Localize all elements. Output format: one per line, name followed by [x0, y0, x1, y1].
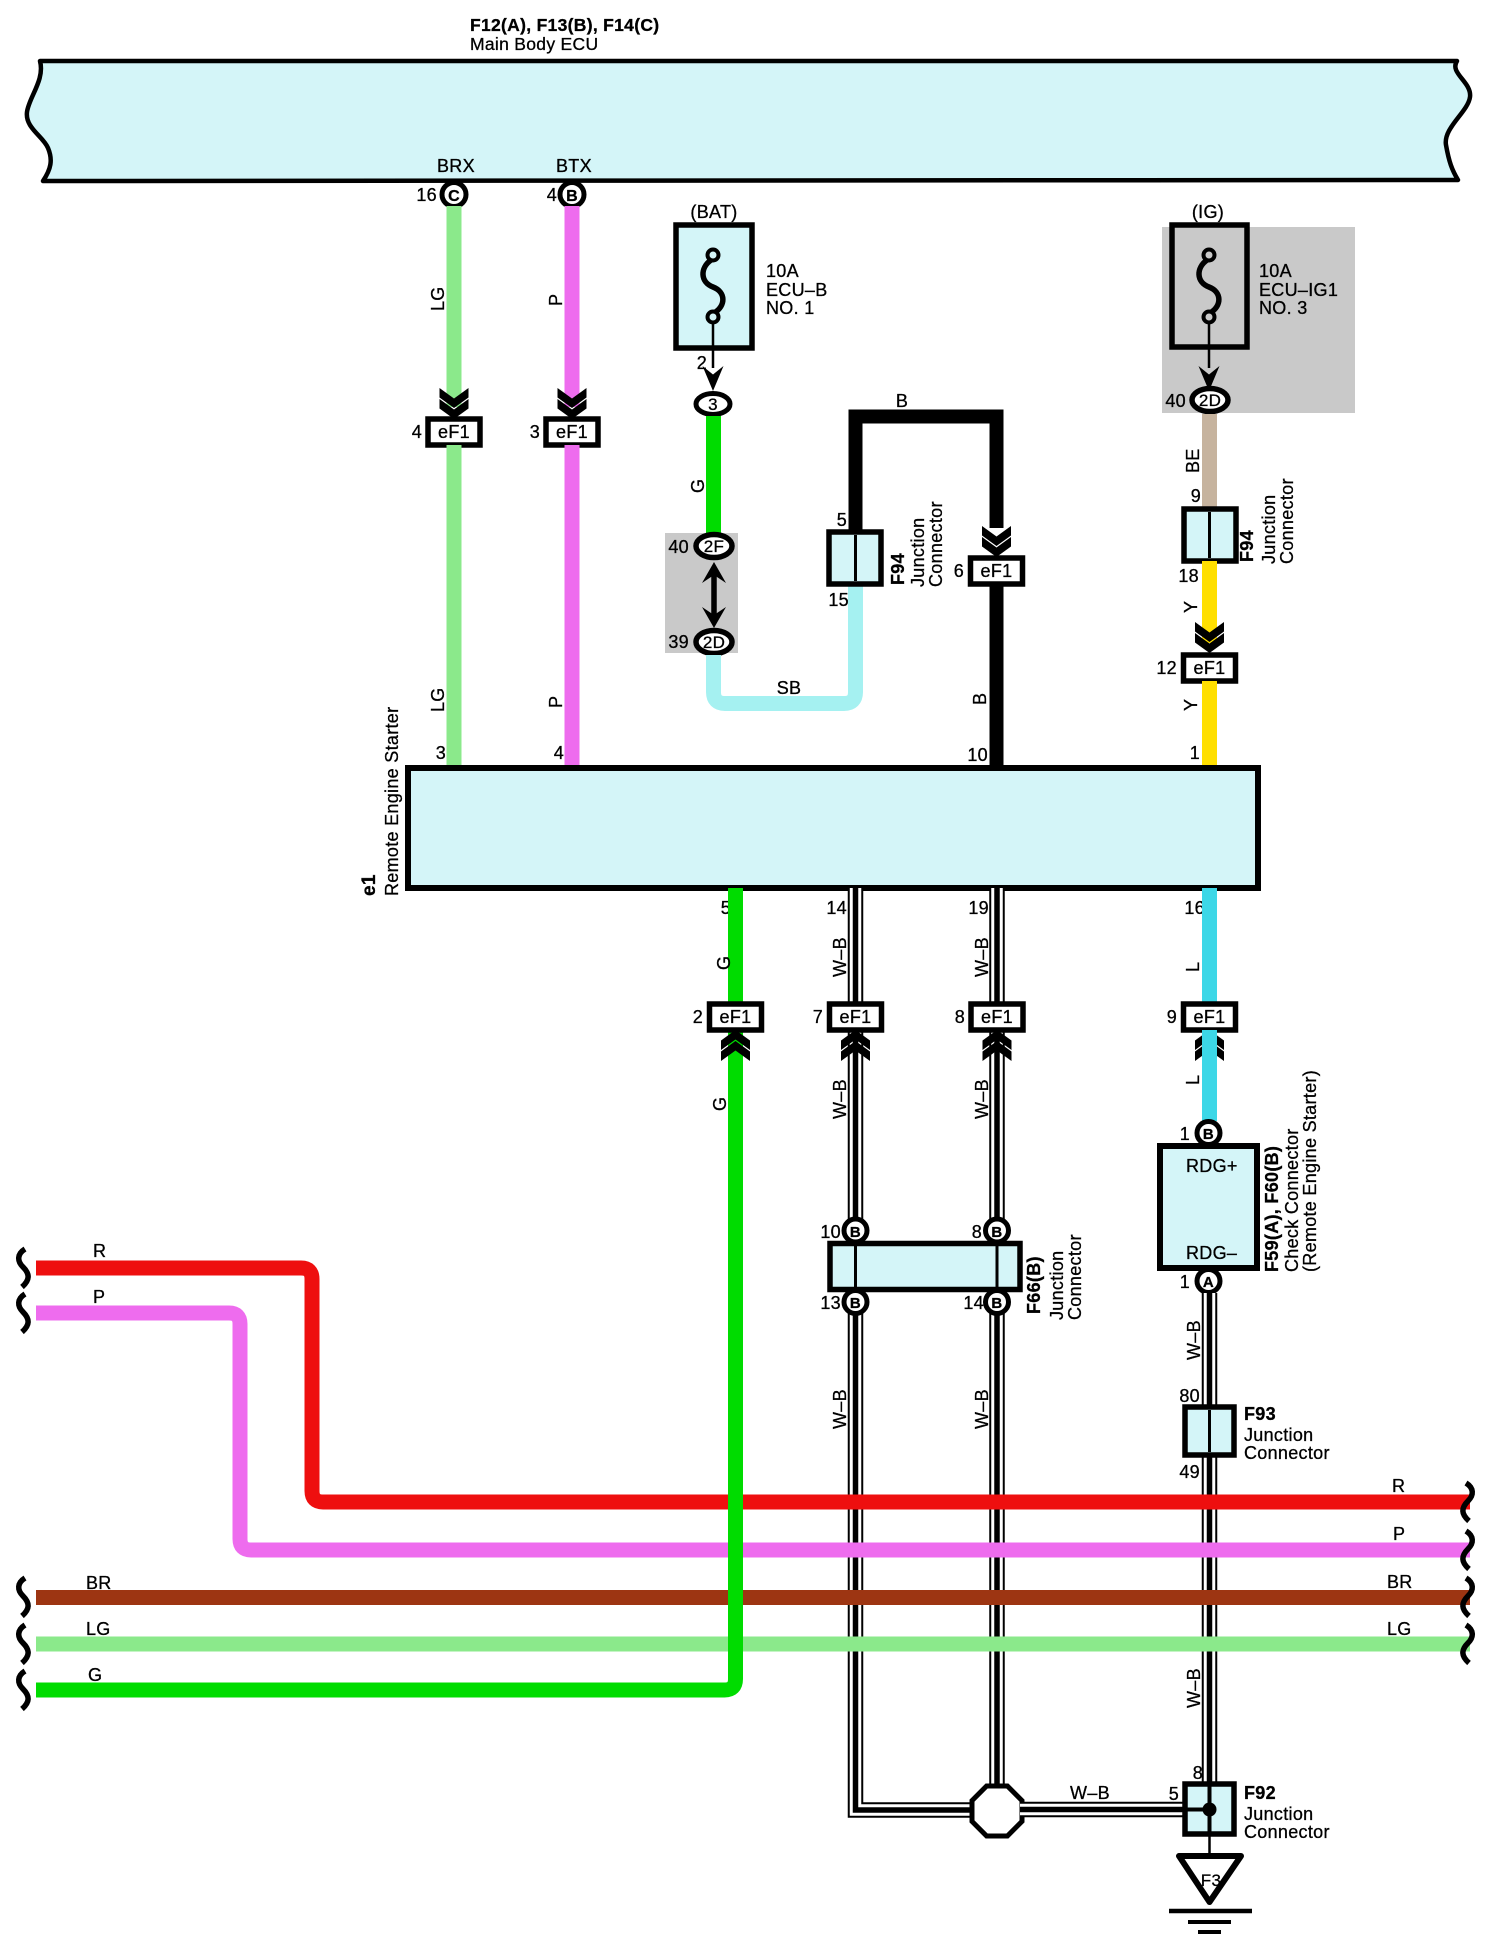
- node 2F pin 40: [668, 535, 732, 558]
- svg-text:L: L: [1183, 962, 1203, 972]
- wire BR: [19, 1572, 1473, 1616]
- svg-text:B: B: [991, 1224, 1002, 1241]
- connector eF1 pin 2: [693, 1004, 762, 1061]
- svg-text:R: R: [93, 1241, 106, 1261]
- check connector node B pin 1: [1180, 1122, 1220, 1145]
- svg-text:ECU–IG1: ECU–IG1: [1259, 280, 1338, 300]
- svg-text:F59(A), F60(B): F59(A), F60(B): [1262, 1146, 1282, 1272]
- svg-text:2: 2: [693, 1007, 703, 1027]
- svg-text:12: 12: [1156, 658, 1177, 678]
- wire P: [19, 1287, 1473, 1569]
- svg-text:BRX: BRX: [437, 156, 475, 176]
- svg-text:14: 14: [826, 898, 847, 918]
- svg-text:P: P: [93, 1287, 105, 1307]
- junction connector F92 pins 8/5: [1185, 1783, 1330, 1842]
- wire B lower to pin 10: [967, 584, 1003, 768]
- svg-text:G: G: [710, 1097, 730, 1111]
- svg-text:Junction: Junction: [1047, 1251, 1067, 1320]
- gray box IG: [1162, 227, 1355, 413]
- svg-text:15: 15: [828, 590, 849, 610]
- fuse 10A ECU-B NO.1 (BAT): [676, 202, 828, 368]
- svg-text:F12(A), F13(B), F14(C): F12(A), F13(B), F14(C): [470, 15, 659, 35]
- junction connector F66(B): [820, 1219, 1085, 1320]
- svg-text:L: L: [1183, 1075, 1203, 1085]
- connector eF1 pin 9: [1167, 1004, 1236, 1061]
- svg-text:LG: LG: [86, 1619, 111, 1639]
- svg-text:8: 8: [1193, 1763, 1203, 1783]
- connector eF1 pin 4: [412, 419, 480, 445]
- svg-text:F3: F3: [1201, 1871, 1221, 1890]
- svg-text:eF1: eF1: [720, 1007, 752, 1027]
- svg-text:W–B: W–B: [1184, 1320, 1204, 1360]
- svg-text:P: P: [546, 294, 566, 306]
- fuse 10A ECU-IG1 NO.3 (IG): [1172, 202, 1338, 368]
- wire W-B from node A to F93: [1179, 1293, 1209, 1790]
- svg-text:13: 13: [820, 1293, 841, 1313]
- svg-text:G: G: [688, 479, 708, 493]
- svg-text:R: R: [1392, 1476, 1405, 1496]
- svg-text:39: 39: [668, 632, 689, 652]
- svg-text:W–B: W–B: [830, 1389, 850, 1429]
- svg-text:40: 40: [1165, 391, 1186, 411]
- wire W-B left (pin 14 chain): [830, 888, 974, 1810]
- svg-text:Junction: Junction: [1244, 1804, 1313, 1824]
- connector eF1 pin 12: [1156, 655, 1235, 681]
- svg-text:2F: 2F: [704, 537, 724, 556]
- Main Body ECU band F12(A) F13(B) F14(C): [27, 15, 1470, 181]
- svg-text:B: B: [991, 1295, 1002, 1312]
- wire BAT fuse to node 3 with arrow, pin 2: [697, 353, 724, 391]
- svg-text:Connector: Connector: [1244, 1443, 1330, 1463]
- wire G bottom from pin 5: [19, 888, 736, 1709]
- svg-text:Check Connector: Check Connector: [1282, 1128, 1302, 1272]
- node 2D pin 40 (IG): [1165, 389, 1228, 412]
- svg-text:Junction: Junction: [908, 518, 928, 587]
- gray box 2F-2D: [665, 533, 738, 653]
- junction connector F93 pins 80/49: [1179, 1404, 1329, 1482]
- svg-text:2D: 2D: [1199, 391, 1221, 410]
- wire LG upper: [428, 206, 462, 407]
- svg-text:1: 1: [1190, 743, 1200, 763]
- wire B hook from F94 over to eF1 6: [856, 391, 997, 532]
- wire W-B middle (pin 19 chain): [972, 888, 997, 1790]
- link arrow 2F to 2D: [702, 562, 726, 628]
- svg-text:6: 6: [954, 561, 964, 581]
- svg-text:P: P: [546, 696, 566, 708]
- wire G from node 3 to 2F: [688, 416, 721, 533]
- svg-text:16: 16: [416, 185, 437, 205]
- node 3 oval: [696, 394, 730, 415]
- svg-text:1: 1: [1180, 1124, 1190, 1144]
- svg-text:14: 14: [963, 1293, 984, 1313]
- arrow IG fuse to 2D: [1199, 366, 1220, 391]
- svg-text:Connector: Connector: [1277, 478, 1297, 564]
- svg-text:(BAT): (BAT): [690, 202, 737, 222]
- svg-text:RDG+: RDG+: [1186, 1156, 1238, 1176]
- check connector node A pin 1: [1180, 1270, 1220, 1293]
- svg-text:4: 4: [547, 185, 557, 205]
- connector B pin 4: [547, 183, 584, 207]
- svg-text:W–B: W–B: [972, 937, 992, 977]
- connector eF1 pin 8: [955, 1004, 1023, 1061]
- svg-text:Main Body ECU: Main Body ECU: [470, 34, 598, 54]
- shield chevrons P: [558, 388, 587, 419]
- svg-text:BTX: BTX: [556, 156, 592, 176]
- svg-text:4: 4: [412, 422, 422, 442]
- svg-text:40: 40: [668, 537, 689, 557]
- svg-text:9: 9: [1191, 486, 1201, 506]
- svg-text:BE: BE: [1183, 448, 1203, 473]
- shield chevrons B: [982, 526, 1011, 557]
- svg-text:G: G: [88, 1665, 102, 1685]
- svg-text:10: 10: [820, 1222, 841, 1242]
- svg-text:Junction: Junction: [1259, 495, 1279, 564]
- wire BE: [1183, 414, 1217, 509]
- svg-text:P: P: [1393, 1524, 1405, 1544]
- octagon junction: [972, 1786, 1022, 1836]
- svg-text:F93: F93: [1244, 1404, 1276, 1424]
- wire L from pin 16: [1183, 888, 1217, 1004]
- svg-text:BR: BR: [1387, 1572, 1413, 1592]
- junction connector F94 (right) pins 9/18: [1178, 478, 1297, 586]
- node 2D pin 39: [668, 631, 732, 654]
- connector eF1 pin 3: [530, 419, 598, 445]
- svg-text:ECU–B: ECU–B: [766, 280, 828, 300]
- svg-text:F94: F94: [888, 553, 908, 585]
- svg-text:e1: e1: [359, 874, 380, 896]
- svg-text:7: 7: [813, 1007, 823, 1027]
- svg-text:eF1: eF1: [1194, 658, 1226, 678]
- svg-text:1: 1: [1180, 1272, 1190, 1292]
- svg-text:B: B: [1203, 1126, 1214, 1143]
- check connector F59(A) F60(B) box: [1160, 1070, 1320, 1272]
- svg-text:8: 8: [955, 1007, 965, 1027]
- svg-text:NO. 1: NO. 1: [766, 298, 815, 318]
- svg-text:49: 49: [1179, 1462, 1200, 1482]
- ground F3: [1169, 1834, 1252, 1932]
- svg-text:RDG–: RDG–: [1186, 1243, 1237, 1263]
- svg-text:2D: 2D: [703, 633, 725, 652]
- Remote Engine Starter e1 box: [359, 707, 1258, 918]
- wire LG lower: [428, 445, 462, 768]
- svg-text:W–B: W–B: [972, 1079, 992, 1119]
- svg-text:10: 10: [967, 745, 988, 765]
- connector eF1 pin 6: [954, 558, 1023, 584]
- svg-text:3: 3: [530, 422, 540, 442]
- svg-text:18: 18: [1178, 566, 1199, 586]
- svg-text:F66(B): F66(B): [1024, 1256, 1044, 1314]
- svg-text:LG: LG: [1387, 1619, 1412, 1639]
- wire SB from 2D to F94: [714, 584, 856, 704]
- svg-text:3: 3: [436, 743, 446, 763]
- svg-text:9: 9: [1167, 1007, 1177, 1027]
- svg-text:19: 19: [968, 898, 989, 918]
- svg-text:LG: LG: [428, 687, 448, 712]
- svg-text:Junction: Junction: [1244, 1425, 1313, 1445]
- junction connector F94 (left) pins 5/15: [828, 501, 946, 610]
- svg-text:B: B: [970, 693, 990, 705]
- svg-text:Connector: Connector: [1244, 1822, 1330, 1842]
- wire L lower: [1183, 1030, 1217, 1121]
- svg-text:SB: SB: [777, 678, 802, 698]
- svg-text:LG: LG: [428, 286, 448, 311]
- svg-text:W–B: W–B: [830, 937, 850, 977]
- svg-text:eF1: eF1: [981, 561, 1013, 581]
- svg-text:F94: F94: [1237, 530, 1257, 562]
- svg-text:B: B: [850, 1224, 861, 1241]
- svg-text:C: C: [448, 188, 460, 205]
- svg-text:10A: 10A: [766, 261, 799, 281]
- svg-text:B: B: [850, 1295, 861, 1312]
- shield chevrons LG: [440, 388, 469, 419]
- svg-text:3: 3: [708, 395, 718, 414]
- shield chevrons Y: [1195, 622, 1224, 653]
- svg-text:W–B: W–B: [1184, 1668, 1204, 1708]
- svg-text:Connector: Connector: [1065, 1234, 1085, 1320]
- svg-text:eF1: eF1: [981, 1007, 1013, 1027]
- svg-text:F92: F92: [1244, 1783, 1276, 1803]
- svg-text:(IG): (IG): [1192, 202, 1224, 222]
- svg-text:B: B: [896, 391, 908, 411]
- svg-text:eF1: eF1: [556, 422, 588, 442]
- svg-text:W–B: W–B: [1070, 1783, 1110, 1803]
- svg-text:eF1: eF1: [1194, 1007, 1226, 1027]
- svg-text:80: 80: [1179, 1386, 1200, 1406]
- wire LG bottom: [19, 1619, 1473, 1663]
- svg-text:W–B: W–B: [830, 1079, 850, 1119]
- wire P lower: [546, 445, 580, 768]
- svg-text:10A: 10A: [1259, 261, 1292, 281]
- svg-text:Connector: Connector: [926, 501, 946, 587]
- svg-text:5: 5: [837, 510, 847, 530]
- svg-text:Remote Engine Starter: Remote Engine Starter: [382, 707, 402, 896]
- svg-text:eF1: eF1: [438, 422, 470, 442]
- svg-text:Y: Y: [1181, 699, 1201, 711]
- svg-text:4: 4: [554, 743, 564, 763]
- wire Y lower to pin 1: [1181, 681, 1217, 768]
- svg-text:(Remote Engine Starter): (Remote Engine Starter): [1300, 1070, 1320, 1272]
- connector C pin 16: [416, 183, 466, 207]
- svg-text:5: 5: [1169, 1784, 1179, 1804]
- svg-text:Y: Y: [1181, 601, 1201, 613]
- wire P upper: [546, 206, 580, 407]
- svg-text:W–B: W–B: [972, 1389, 992, 1429]
- svg-text:G: G: [714, 956, 734, 970]
- svg-text:A: A: [1203, 1274, 1214, 1291]
- svg-text:8: 8: [972, 1222, 982, 1242]
- svg-text:16: 16: [1184, 898, 1205, 918]
- svg-text:NO. 3: NO. 3: [1259, 298, 1308, 318]
- wire R: [19, 1241, 1473, 1521]
- wire Y upper: [1181, 561, 1217, 643]
- svg-text:eF1: eF1: [840, 1007, 872, 1027]
- svg-text:B: B: [566, 188, 578, 205]
- connector eF1 pin 7: [813, 1004, 882, 1061]
- wire W-B octagon to F92: [1020, 1783, 1186, 1810]
